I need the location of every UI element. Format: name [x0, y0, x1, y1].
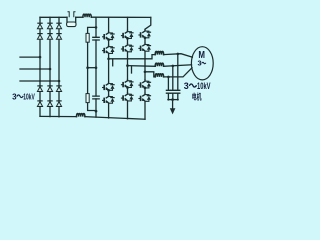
node AC3-leg3 — [58, 80, 61, 83]
node DC bottom join — [95, 110, 98, 113]
diode VD3 — [47, 23, 52, 29]
wire DC link tap — [88, 17, 96, 33]
wire DC link right rail — [95, 27, 97, 117]
node leg1 A-B — [107, 38, 110, 41]
node DC tap top — [95, 26, 98, 29]
inductor L1 — [155, 51, 163, 54]
wire inverter leg 3 — [144, 38, 146, 119]
capacitor C3 plates — [166, 90, 170, 93]
wire DC+ top bus middle — [76, 16, 83, 18]
fuse F1 body — [67, 22, 76, 27]
node leg2 C-D — [126, 86, 129, 89]
wire inverter leg 3 top jog — [145, 17, 151, 29]
node AC1-leg1 — [39, 56, 42, 59]
wire cap leads to common — [168, 93, 177, 99]
wire AC phase 1 input — [20, 56, 40, 58]
node cap tap 1 — [177, 53, 180, 56]
wire rectifier leg 2 — [49, 17, 51, 116]
IGBT V9 — [138, 29, 151, 38]
node leg2 A-B — [126, 37, 129, 40]
capacitor C1 plates — [93, 37, 99, 40]
IGBT V1 — [102, 31, 115, 40]
fuse F1 leads — [67, 17, 76, 22]
capacitor C2 plates — [93, 96, 99, 99]
node leg3 out — [144, 70, 147, 73]
svg-text:电机: 电机 — [192, 92, 202, 102]
node cap tap 3 — [167, 76, 170, 79]
inductor L4 on top bus — [83, 14, 91, 17]
node AC2-leg2 — [49, 68, 52, 71]
node midpoint left — [86, 66, 89, 69]
svg-text:3: 3 — [12, 92, 17, 101]
diode VD12 — [56, 101, 61, 107]
wire inverter leg 2 — [127, 17, 129, 118]
IGBT V3 — [102, 82, 115, 91]
wire filter cap tap 1 — [177, 54, 179, 90]
wire DC- bottom bus right — [85, 117, 145, 120]
diode VD1 — [37, 23, 42, 29]
node cap tap 2 — [172, 65, 175, 68]
IGBT V5 — [121, 30, 134, 39]
wire phase W output — [145, 72, 155, 77]
IGBT V10 — [138, 43, 151, 52]
inductor L3 — [155, 74, 163, 77]
wire inverter leg 1 — [108, 17, 110, 118]
wire filter cap tap 3 — [167, 77, 169, 90]
node leg2 out — [126, 64, 129, 67]
wire filter cap tap 2 — [172, 66, 174, 90]
inductor L5 on bottom bus — [77, 114, 85, 117]
resistor R2 body — [86, 33, 89, 42]
wire DC+ top bus left — [40, 16, 67, 18]
diode VD9 — [47, 86, 52, 92]
motor M1 — [191, 47, 213, 80]
IGBT V11 — [138, 79, 151, 88]
stub under phase V wire — [131, 66, 133, 73]
wire phase U output — [109, 55, 156, 59]
node midpoint right — [95, 66, 98, 69]
wire phase V output — [128, 65, 156, 68]
wire AC phase 3 input — [20, 80, 59, 82]
wire DC+ top bus right — [91, 16, 150, 18]
fuse F1 hooks — [68, 12, 76, 17]
node leg3 C-D — [144, 87, 147, 90]
capacitor C4 plates — [171, 90, 175, 93]
inductor L2 — [155, 63, 163, 66]
wire cap common bus — [168, 99, 178, 101]
wire L2 to motor — [164, 65, 192, 67]
stub under phase U wire — [112, 59, 114, 66]
svg-text:3: 3 — [198, 59, 202, 68]
node leg1 out — [107, 57, 110, 60]
diode VD8 — [37, 101, 42, 107]
wire DC- bottom bus — [40, 115, 77, 117]
diode VD4 — [47, 34, 52, 40]
node leg3 A-B — [144, 36, 147, 39]
wire crossing blobs — [39, 68, 41, 70]
svg-text:10kV: 10kV — [197, 81, 211, 91]
svg-text:3: 3 — [184, 81, 189, 91]
diode VD6 — [56, 34, 61, 40]
node cap common — [171, 98, 174, 101]
capacitor C5 plates — [176, 90, 180, 93]
wire rectifier leg 3 — [58, 17, 60, 117]
wire DC link midpoint connector — [88, 67, 96, 69]
IGBT V8 — [121, 92, 134, 101]
resistor R3 body — [86, 94, 89, 103]
diode VD2 — [37, 34, 42, 40]
diode VD11 — [56, 86, 61, 92]
node leg1 C-D — [107, 89, 110, 92]
IGBT V7 — [121, 79, 134, 88]
wire L3 to motor — [164, 68, 192, 77]
diode VD7 — [37, 86, 42, 92]
wire L1 to motor — [164, 54, 193, 58]
node cap lead 3 — [177, 99, 179, 101]
IGBT V12 — [138, 93, 151, 102]
IGBT V6 — [121, 43, 134, 52]
diode VD10 — [47, 101, 52, 107]
wire DC link left rail — [88, 42, 96, 110]
node cap lead 1 — [167, 99, 169, 101]
IGBT V4 — [102, 95, 115, 104]
ground — [170, 108, 176, 114]
IGBT V2 — [102, 45, 115, 54]
wire rectifier leg 1 — [39, 17, 41, 116]
wire ground lead — [172, 100, 174, 109]
diode VD5 — [56, 23, 61, 29]
svg-text:10kV: 10kV — [23, 92, 35, 101]
wire AC phase 2 input — [20, 68, 50, 70]
